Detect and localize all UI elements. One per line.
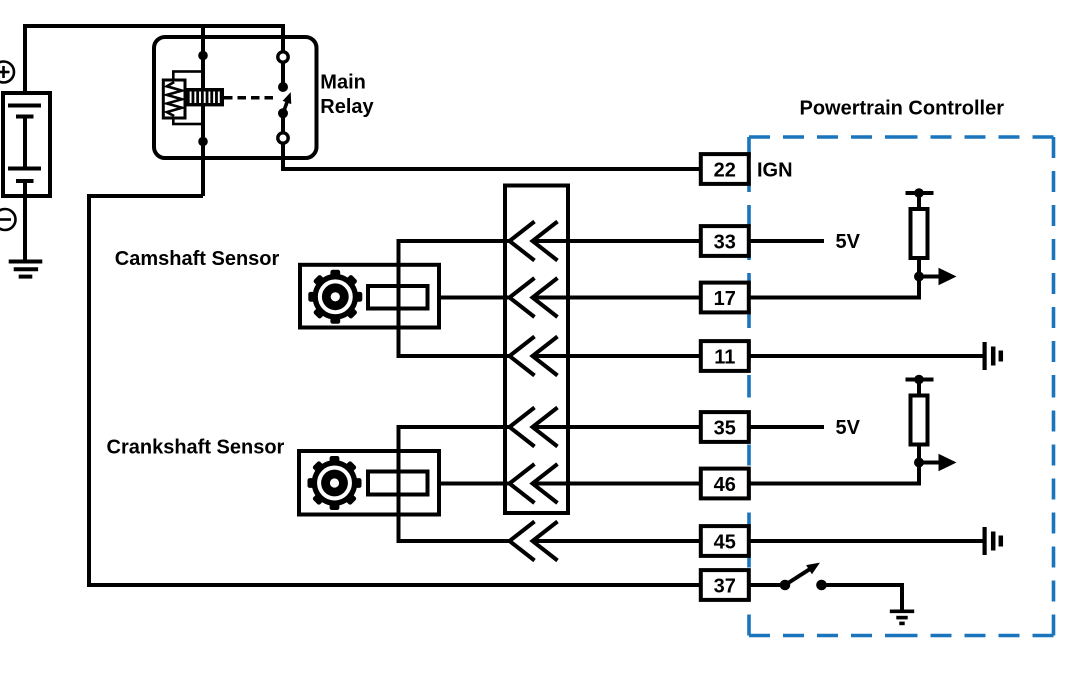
crankshaft sensor bus vertical (over body) bbox=[397, 427, 401, 541]
shield ground (crankshaft) bbox=[985, 527, 1001, 555]
camshaft sensor gear bbox=[308, 270, 362, 324]
wire pin 11 to shield ground bbox=[749, 354, 983, 358]
relay coil bracket bbox=[173, 72, 203, 125]
ground (switch) bbox=[890, 611, 914, 623]
relay switch common wire bbox=[281, 62, 285, 87]
relay switch contact top (NO terminal) bbox=[278, 52, 288, 62]
camshaft sensor pickup element bbox=[368, 286, 428, 309]
switch contact dot left bbox=[780, 580, 791, 591]
twisted pair chevrons row 17 bbox=[510, 278, 558, 317]
relay switch wire between dots bbox=[281, 113, 285, 133]
crankshaft sensor signal wire bbox=[428, 482, 510, 486]
camshaft sensor signal wire bbox=[428, 296, 510, 300]
camshaft sensor CMP body bbox=[300, 265, 439, 328]
wire pin 17 to comparator node bbox=[749, 277, 919, 298]
battery B1 bbox=[3, 93, 50, 196]
relay switch blade with arrow bbox=[279, 91, 295, 115]
junction dot R1 top bbox=[914, 188, 924, 198]
svg-text:33: 33 bbox=[714, 231, 736, 253]
junction dot relay coil bottom bbox=[198, 137, 208, 147]
shield ground (camshaft) bbox=[985, 342, 1001, 370]
wire relay output to pin 22 bbox=[283, 143, 701, 169]
pull-up resistor R2 rail bbox=[906, 378, 934, 382]
battery positive terminal (+) bbox=[0, 62, 14, 83]
shielded cable boundary bbox=[505, 186, 568, 514]
crankshaft sensor pickup element bbox=[368, 472, 428, 495]
svg-text:Relay: Relay bbox=[320, 96, 374, 118]
crankshaft sensor CKP body bbox=[299, 451, 439, 515]
svg-text:Crankshaft Sensor: Crankshaft Sensor bbox=[107, 437, 285, 459]
pin 37 box bbox=[701, 570, 749, 600]
relay switch fixed contact dot bbox=[278, 82, 288, 92]
pin 11 box bbox=[701, 341, 749, 371]
svg-text:45: 45 bbox=[714, 531, 736, 553]
wire pin 35 to 5V bbox=[749, 425, 824, 429]
wire relay coil return to pin 37 (long left run) bbox=[89, 196, 701, 585]
relay actuation dashed link bbox=[224, 96, 278, 100]
crankshaft sensor bus wires bbox=[399, 427, 510, 541]
junction dot R2 top bbox=[914, 375, 924, 385]
svg-text:11: 11 bbox=[714, 346, 735, 368]
pull-up resistor R2 bbox=[911, 396, 928, 445]
relay coil resistor zigzag bbox=[167, 82, 182, 116]
wire battery positive to relay (top rail) bbox=[25, 26, 283, 93]
twisted pair chevrons row 35 bbox=[510, 408, 558, 447]
R2 top lead bbox=[917, 380, 921, 396]
relay coil pin wire bbox=[201, 55, 205, 196]
signal arrow (camshaft input) bbox=[919, 275, 939, 279]
camshaft sensor bus wires bbox=[399, 241, 510, 356]
twisted pair chevrons row 33 bbox=[510, 222, 558, 261]
relay K1 body bbox=[154, 37, 317, 158]
wire row 45 to pin bbox=[533, 539, 701, 543]
wire battery negative to ground bbox=[23, 196, 27, 262]
ground (battery) bbox=[9, 262, 43, 277]
wire row 35 to pin bbox=[533, 425, 701, 429]
switch contact dot right bbox=[816, 580, 827, 591]
pin 45 box bbox=[701, 526, 749, 556]
pin 46 box bbox=[701, 469, 749, 499]
svg-text:17: 17 bbox=[714, 288, 736, 310]
svg-text:5V: 5V bbox=[836, 231, 861, 253]
signal arrow (crankshaft input) bbox=[919, 461, 939, 465]
R1 top lead bbox=[917, 193, 921, 209]
powertrain controller boundary (dashed) bbox=[749, 137, 1054, 636]
junction dot R2 bottom bbox=[914, 458, 924, 468]
switch blade with arrow bbox=[782, 558, 823, 589]
wire switch to ground bbox=[822, 585, 903, 611]
pin 33 box bbox=[701, 226, 749, 256]
pin 22 box bbox=[701, 154, 749, 184]
R1 bottom lead bbox=[917, 258, 921, 277]
camshaft sensor bus vertical (over body) bbox=[397, 241, 401, 356]
wire relay coil top stub bbox=[201, 26, 205, 72]
crankshaft sensor gear bbox=[308, 456, 362, 510]
relay switch moving contact dot bbox=[278, 108, 288, 118]
pin 35 box bbox=[701, 412, 749, 442]
R2 bottom lead bbox=[917, 445, 921, 463]
wire row 11 to pin bbox=[533, 354, 701, 358]
pin 17 box bbox=[701, 283, 749, 313]
junction dot R1 bottom bbox=[914, 272, 924, 282]
svg-text:37: 37 bbox=[714, 575, 736, 597]
wire row 17 to pin bbox=[533, 296, 701, 300]
svg-text:IGN: IGN bbox=[757, 159, 793, 181]
wire row 33 to pin bbox=[533, 239, 701, 243]
svg-text:35: 35 bbox=[714, 417, 736, 439]
svg-text:5V: 5V bbox=[836, 417, 861, 439]
wire pin 33 to 5V bbox=[749, 239, 824, 243]
battery negative terminal (-) bbox=[0, 209, 16, 230]
svg-text:22: 22 bbox=[714, 159, 736, 181]
junction dot relay coil top bbox=[198, 51, 208, 61]
relay solenoid core bbox=[185, 88, 224, 106]
svg-text:Powertrain Controller: Powertrain Controller bbox=[800, 98, 1005, 120]
twisted pair chevrons row 46 bbox=[510, 464, 558, 503]
svg-text:Camshaft Sensor: Camshaft Sensor bbox=[115, 248, 280, 270]
twisted pair chevrons row 11 bbox=[510, 337, 558, 376]
twisted pair chevrons row 45 bbox=[510, 522, 558, 561]
pull-up resistor R1 rail bbox=[906, 191, 934, 195]
wire row 46 to pin bbox=[533, 482, 701, 486]
pull-up resistor R1 bbox=[911, 209, 928, 258]
relay coil resistor box bbox=[163, 80, 185, 118]
wire pin 37 to switch bbox=[749, 583, 785, 587]
svg-text:46: 46 bbox=[714, 474, 736, 496]
wire pin 46 to comparator node bbox=[749, 463, 919, 484]
wire pin 45 to shield ground bbox=[749, 539, 983, 543]
relay switch contact bottom (output terminal) bbox=[278, 133, 288, 143]
svg-text:Main: Main bbox=[320, 72, 366, 94]
